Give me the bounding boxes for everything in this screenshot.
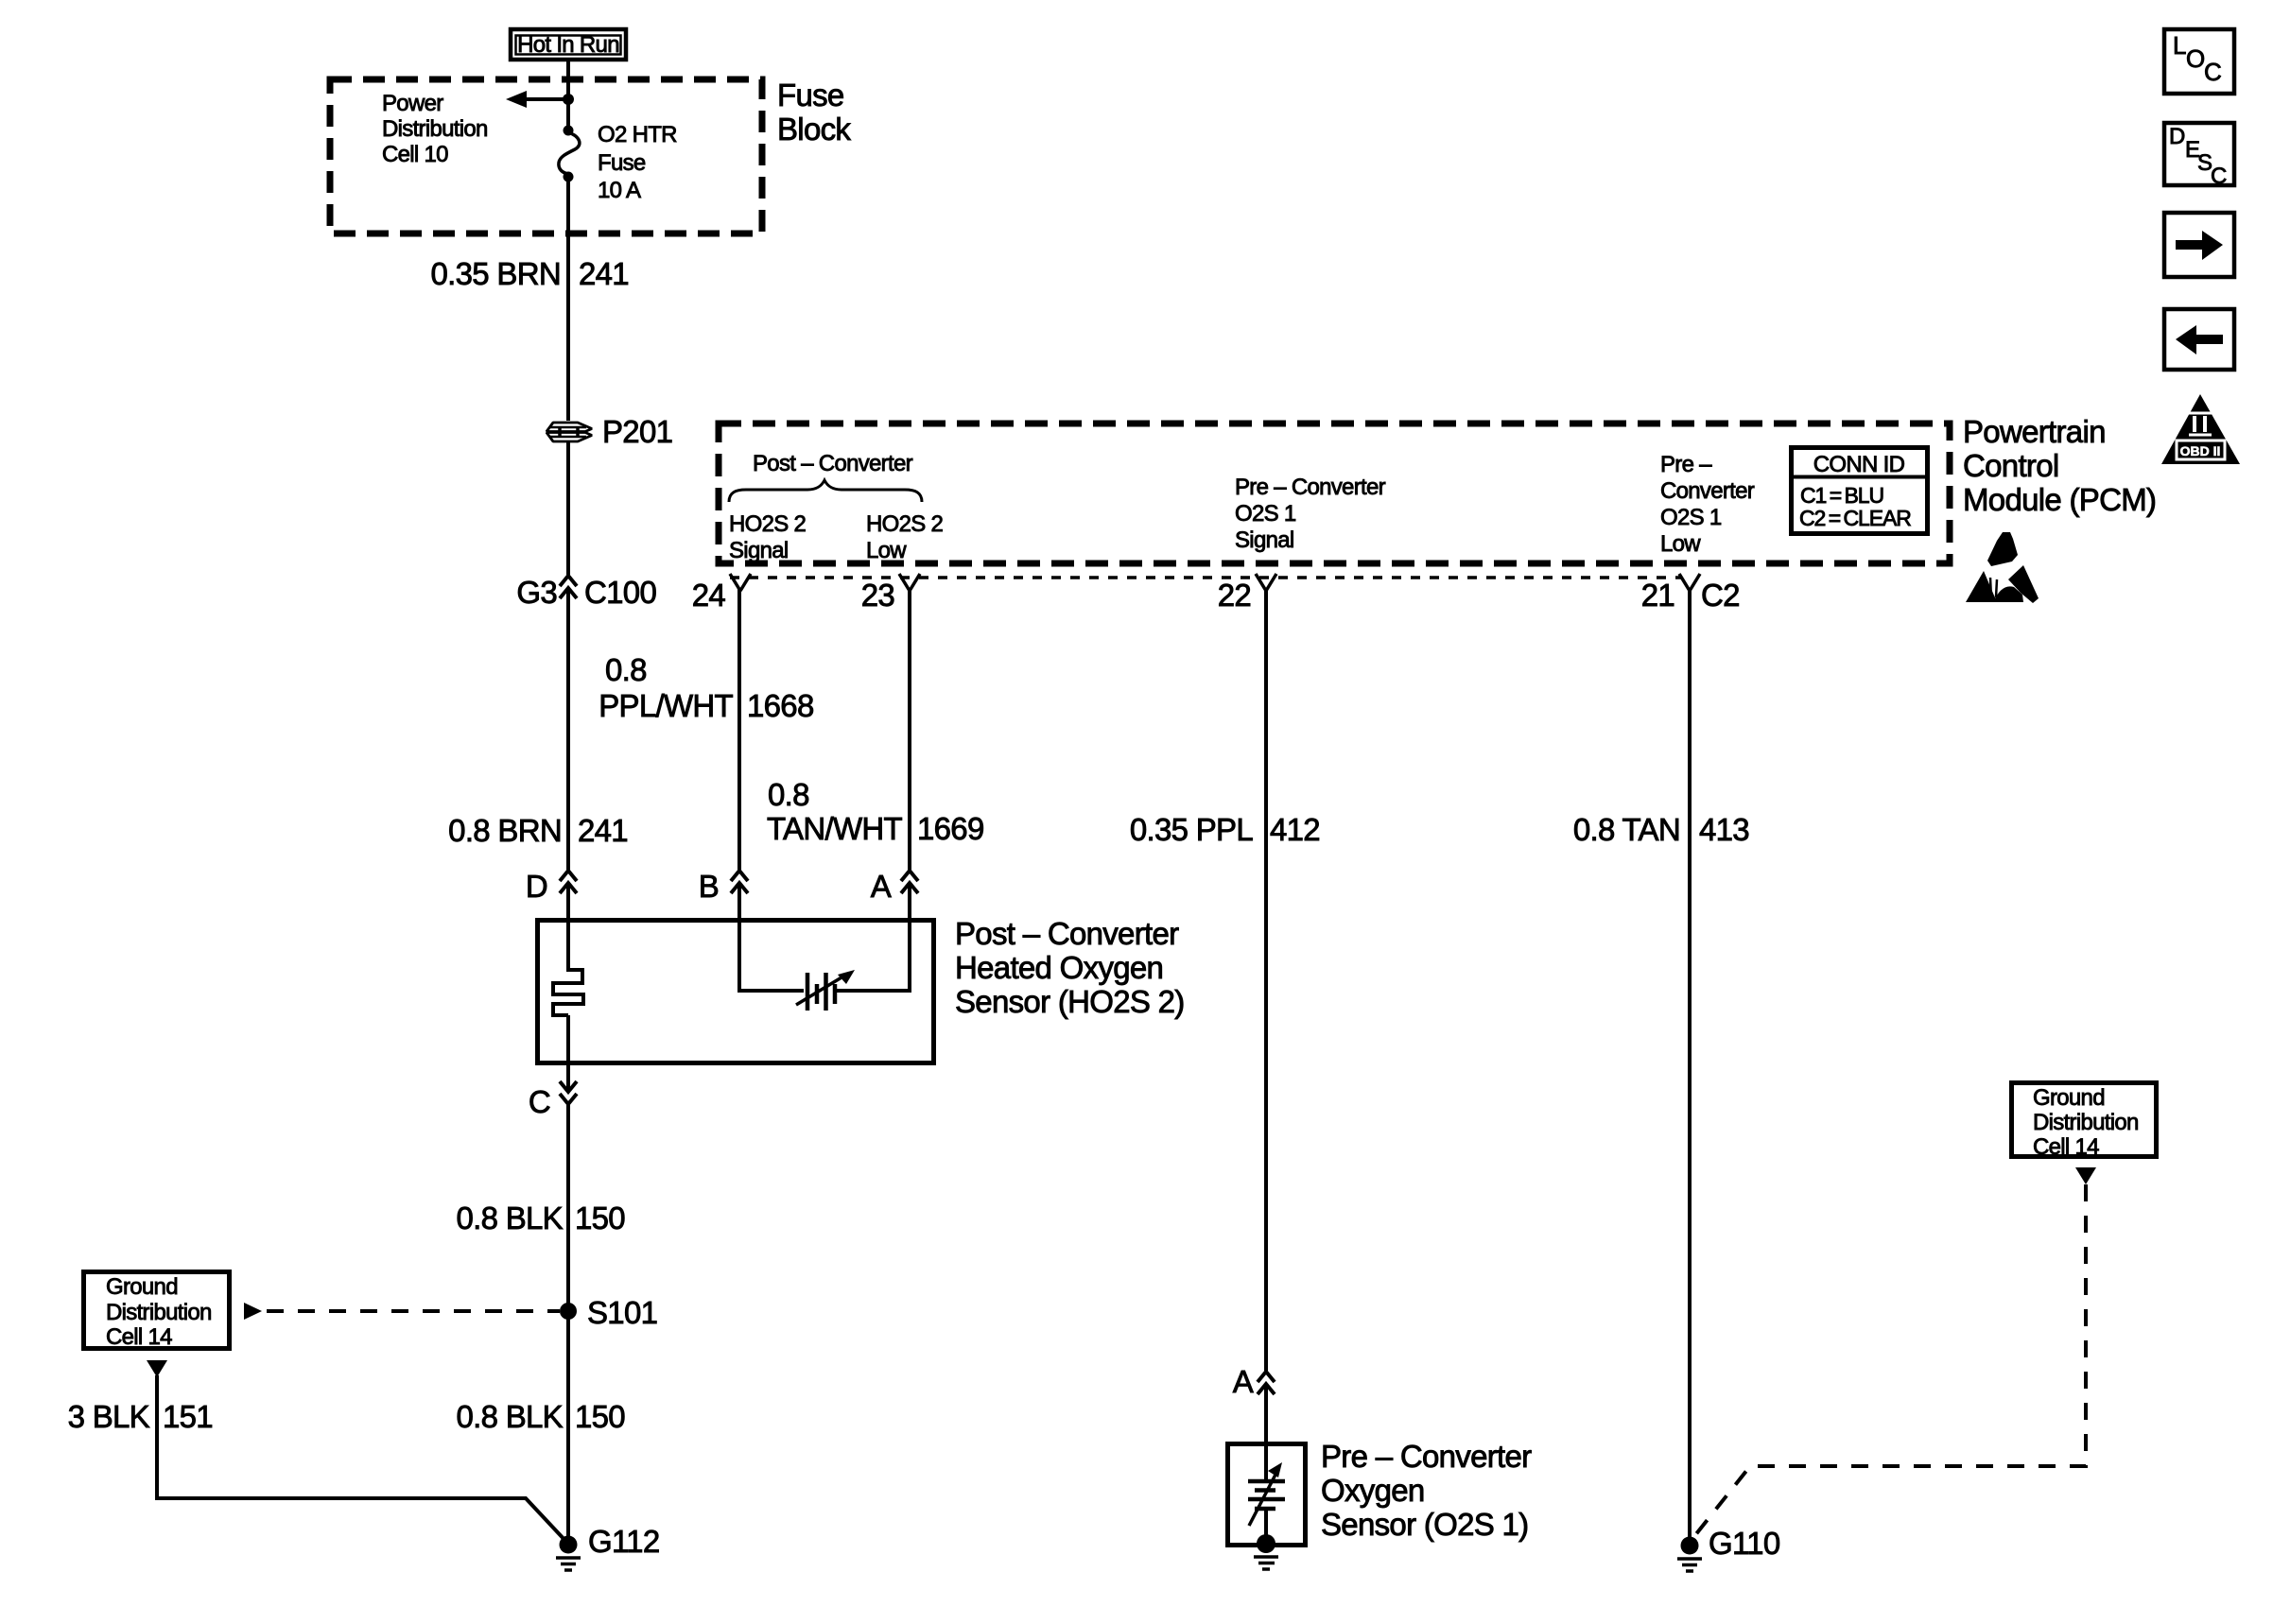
Post-Converter Heated Oxygen Sensor (HO2S 2) label xyxy=(955,916,1185,1019)
wire: A into O2S 1 xyxy=(1264,1384,1268,1479)
svg-text:Pre –: Pre – xyxy=(1660,452,1712,477)
svg-text:Post – Converter: Post – Converter xyxy=(753,451,913,476)
wire 241: C100 to HO2S 2 xyxy=(566,588,570,870)
wire 413: pin 21 to G110 xyxy=(1688,589,1692,1541)
Hot In Run box xyxy=(511,29,626,60)
connector triangle below left GD box xyxy=(147,1360,167,1377)
svg-text:Sensor (O2S 1): Sensor (O2S 1) xyxy=(1321,1507,1528,1542)
svg-text:0.8: 0.8 xyxy=(768,777,809,812)
svg-text:L: L xyxy=(2173,31,2186,60)
svg-text:A: A xyxy=(1233,1364,1254,1399)
ground G112 xyxy=(556,1536,581,1571)
pin D arrow xyxy=(560,871,577,893)
pin B arrow xyxy=(731,871,748,893)
svg-text:P201: P201 xyxy=(602,414,672,449)
svg-text:22: 22 xyxy=(1218,578,1251,613)
svg-text:O2S 1: O2S 1 xyxy=(1660,505,1722,530)
svg-text:10 A: 10 A xyxy=(598,178,641,203)
svg-text:0.8 BRN: 0.8 BRN xyxy=(448,813,562,848)
svg-text:0.35 BRN: 0.35 BRN xyxy=(431,256,561,291)
icon arrow right xyxy=(2164,213,2234,277)
O2 HTR Fuse 10 A label xyxy=(598,122,677,203)
svg-text:Fuse: Fuse xyxy=(598,150,646,176)
svg-text:HO2S 2: HO2S 2 xyxy=(729,511,807,537)
svg-text:D: D xyxy=(526,869,547,904)
svg-text:A: A xyxy=(871,869,892,904)
svg-text:Signal: Signal xyxy=(1235,527,1294,553)
svg-text:Cell 10: Cell 10 xyxy=(382,142,448,167)
svg-text:241: 241 xyxy=(579,256,629,291)
pin C arrow xyxy=(560,1081,577,1104)
left Ground Distribution Cell 14 box xyxy=(84,1272,230,1349)
HO2S 2 Low label xyxy=(866,511,944,563)
icon ESD triangle xyxy=(1966,532,2039,603)
wire: heater to box bottom xyxy=(566,1015,570,1092)
svg-text:1669: 1669 xyxy=(917,811,984,846)
svg-text:Signal: Signal xyxy=(729,538,789,563)
wire: P201 to C100 xyxy=(566,442,570,575)
svg-text:PPL/WHT: PPL/WHT xyxy=(599,688,733,723)
PCM dashed box xyxy=(719,423,1950,563)
splice P201 grommet symbol xyxy=(547,423,592,441)
Pre-Converter Oxygen Sensor (O2S 1) label xyxy=(1321,1439,1532,1542)
svg-text:Heated Oxygen: Heated Oxygen xyxy=(955,950,1163,985)
fuse F: O2 HTR Fuse 10 A xyxy=(559,126,580,182)
svg-text:TAN/WHT: TAN/WHT xyxy=(767,811,902,846)
svg-text:OBD II: OBD II xyxy=(2180,443,2221,458)
svg-text:0.8 TAN: 0.8 TAN xyxy=(1573,812,1680,847)
PCM connector face dotted line xyxy=(730,576,1681,579)
svg-text:C: C xyxy=(2211,164,2227,189)
svg-text:24: 24 xyxy=(692,578,726,613)
ground node O2S 1 xyxy=(1254,1534,1278,1569)
label 0.8 TAN/WHT xyxy=(767,777,902,846)
svg-text:O2S 1: O2S 1 xyxy=(1235,501,1296,527)
icon OBD II triangle xyxy=(2161,394,2240,464)
svg-text:Low: Low xyxy=(1660,531,1701,557)
Fuse Block label xyxy=(777,78,851,147)
svg-text:23: 23 xyxy=(861,578,894,613)
pin A arrow (O2S 1) xyxy=(1258,1372,1275,1394)
wire: branch arrow to Power Distribution xyxy=(506,91,568,108)
svg-text:Oxygen: Oxygen xyxy=(1321,1473,1425,1508)
pin 21 xyxy=(1641,574,1700,613)
svg-text:Distribution: Distribution xyxy=(2033,1110,2139,1135)
svg-text:Converter: Converter xyxy=(1660,478,1755,504)
svg-text:Fuse: Fuse xyxy=(777,78,844,112)
svg-text:C1 = BLU: C1 = BLU xyxy=(1800,483,1883,508)
wire 412: pin 22 down xyxy=(1264,589,1268,1371)
svg-text:3 BLK: 3 BLK xyxy=(68,1399,150,1434)
svg-text:C100: C100 xyxy=(584,575,656,610)
icon DESC xyxy=(2164,123,2234,189)
svg-text:Post – Converter: Post – Converter xyxy=(955,916,1179,951)
svg-text:241: 241 xyxy=(578,813,628,848)
svg-text:Cell 14: Cell 14 xyxy=(106,1324,172,1350)
right Ground Distribution Cell 14 box xyxy=(2012,1083,2157,1157)
icon LOC xyxy=(2164,29,2234,94)
svg-text:Low: Low xyxy=(866,538,907,563)
label 3 BLK 151 xyxy=(68,1399,213,1434)
svg-text:412: 412 xyxy=(1270,812,1320,847)
node: fuse block feed junction xyxy=(563,94,574,105)
svg-text:1668: 1668 xyxy=(747,688,814,723)
Powertrain Control Module (PCM) label xyxy=(1963,414,2156,517)
label 0.35 PPL 412 xyxy=(1130,812,1320,847)
wire: D into sensor xyxy=(566,883,570,972)
icon arrow left xyxy=(2164,309,2234,370)
wire: A into sensor xyxy=(908,883,911,993)
svg-text:D: D xyxy=(2169,124,2185,149)
svg-text:413: 413 xyxy=(1699,812,1749,847)
svg-text:Pre – Converter: Pre – Converter xyxy=(1235,475,1386,500)
svg-text:0.8 BLK: 0.8 BLK xyxy=(456,1399,563,1434)
right Ground Distribution Cell 14 label xyxy=(2033,1085,2139,1160)
svg-text:Cell 14: Cell 14 xyxy=(2033,1134,2099,1160)
label 0.8 BLK 150 lower xyxy=(456,1399,625,1434)
dashed route: right GD box to G110 xyxy=(1692,1184,2086,1540)
pin 22 xyxy=(1218,574,1276,613)
svg-text:0.35 PPL: 0.35 PPL xyxy=(1130,812,1254,847)
connector C100 pass-through arrow xyxy=(560,576,577,598)
wire 1669: pin 23 down xyxy=(908,589,911,870)
svg-text:S101: S101 xyxy=(587,1295,657,1330)
svg-text:Pre – Converter: Pre – Converter xyxy=(1321,1439,1532,1474)
Power Distribution Cell 10 label xyxy=(382,91,488,167)
svg-text:151: 151 xyxy=(163,1399,213,1434)
svg-text:G110: G110 xyxy=(1709,1526,1780,1561)
svg-text:Sensor (HO2S 2): Sensor (HO2S 2) xyxy=(955,984,1185,1019)
svg-text:C: C xyxy=(2204,58,2222,86)
label 0.8 PPL/WHT xyxy=(599,652,733,723)
wire: Hot In Run to fuse xyxy=(566,61,570,127)
svg-text:Ground: Ground xyxy=(106,1274,178,1300)
svg-text:0.8 BLK: 0.8 BLK xyxy=(456,1201,563,1235)
svg-text:Control: Control xyxy=(1963,448,2058,483)
svg-text:150: 150 xyxy=(575,1399,625,1434)
Pre - Converter O2S 1 Signal label xyxy=(1235,475,1386,553)
HO2S 2 sensor box xyxy=(538,921,934,1063)
dashed link: Ground Distribution to S101 xyxy=(244,1303,560,1320)
label 0.8 BRN 241 xyxy=(448,813,628,848)
wire: sensing bridge left xyxy=(739,989,804,993)
wire 241: fuse to P201 xyxy=(566,180,570,421)
pin 24 xyxy=(692,574,751,613)
fuse block dashed box xyxy=(330,79,762,233)
svg-text:Distribution: Distribution xyxy=(106,1300,212,1325)
svg-text:C: C xyxy=(529,1084,550,1119)
svg-text:B: B xyxy=(699,869,719,904)
svg-text:O2 HTR: O2 HTR xyxy=(598,122,677,147)
svg-text:G3: G3 xyxy=(516,575,557,610)
svg-text:C2 = CLEAR: C2 = CLEAR xyxy=(1799,506,1911,530)
CONN ID table xyxy=(1789,448,1930,534)
variable sense element xyxy=(796,970,855,1011)
splice S101 xyxy=(560,1303,577,1320)
ground G110 xyxy=(1677,1537,1702,1572)
O2S 1 sensor box xyxy=(1228,1444,1306,1546)
svg-text:Ground: Ground xyxy=(2033,1085,2105,1111)
svg-text:Module (PCM): Module (PCM) xyxy=(1963,482,2156,517)
connector triangle below right GD box xyxy=(2075,1167,2096,1184)
O2S 1 sense element xyxy=(1248,1462,1285,1544)
pin 23 xyxy=(861,574,920,613)
pin A arrow xyxy=(901,871,918,893)
wire 1668: pin 24 down xyxy=(737,589,741,870)
svg-text:150: 150 xyxy=(575,1201,625,1235)
wire 151 xyxy=(157,1375,567,1543)
label 0.8 TAN 413 xyxy=(1573,812,1749,847)
svg-text:Powertrain: Powertrain xyxy=(1963,414,2106,449)
wire 150: C to S101 xyxy=(566,1104,570,1311)
svg-text:Distribution: Distribution xyxy=(382,116,488,142)
svg-text:Hot In Run: Hot In Run xyxy=(517,32,619,58)
svg-text:Power: Power xyxy=(382,91,443,116)
wire: S101 to G112 xyxy=(566,1311,570,1544)
svg-text:Block: Block xyxy=(777,112,851,147)
svg-text:CONN ID: CONN ID xyxy=(1813,452,1905,477)
svg-text:G112: G112 xyxy=(588,1524,659,1559)
wire: B into sensor xyxy=(737,883,741,993)
brace over HO2S 2 pins xyxy=(729,480,922,502)
svg-text:21: 21 xyxy=(1641,578,1674,613)
svg-text:HO2S 2: HO2S 2 xyxy=(866,511,944,537)
svg-text:O: O xyxy=(2186,44,2205,73)
left Ground Distribution Cell 14 label xyxy=(106,1274,212,1350)
HO2S 2 Signal label xyxy=(729,511,807,563)
Pre - Converter O2S 1 Low label xyxy=(1660,452,1755,557)
label 0.35 BRN 241 xyxy=(431,256,629,291)
wire: sensing bridge right xyxy=(837,989,910,993)
svg-text:0.8: 0.8 xyxy=(605,652,647,687)
svg-text:C2: C2 xyxy=(1701,578,1740,613)
heater element xyxy=(553,970,583,1015)
label 0.8 BLK 150 upper xyxy=(456,1201,625,1235)
